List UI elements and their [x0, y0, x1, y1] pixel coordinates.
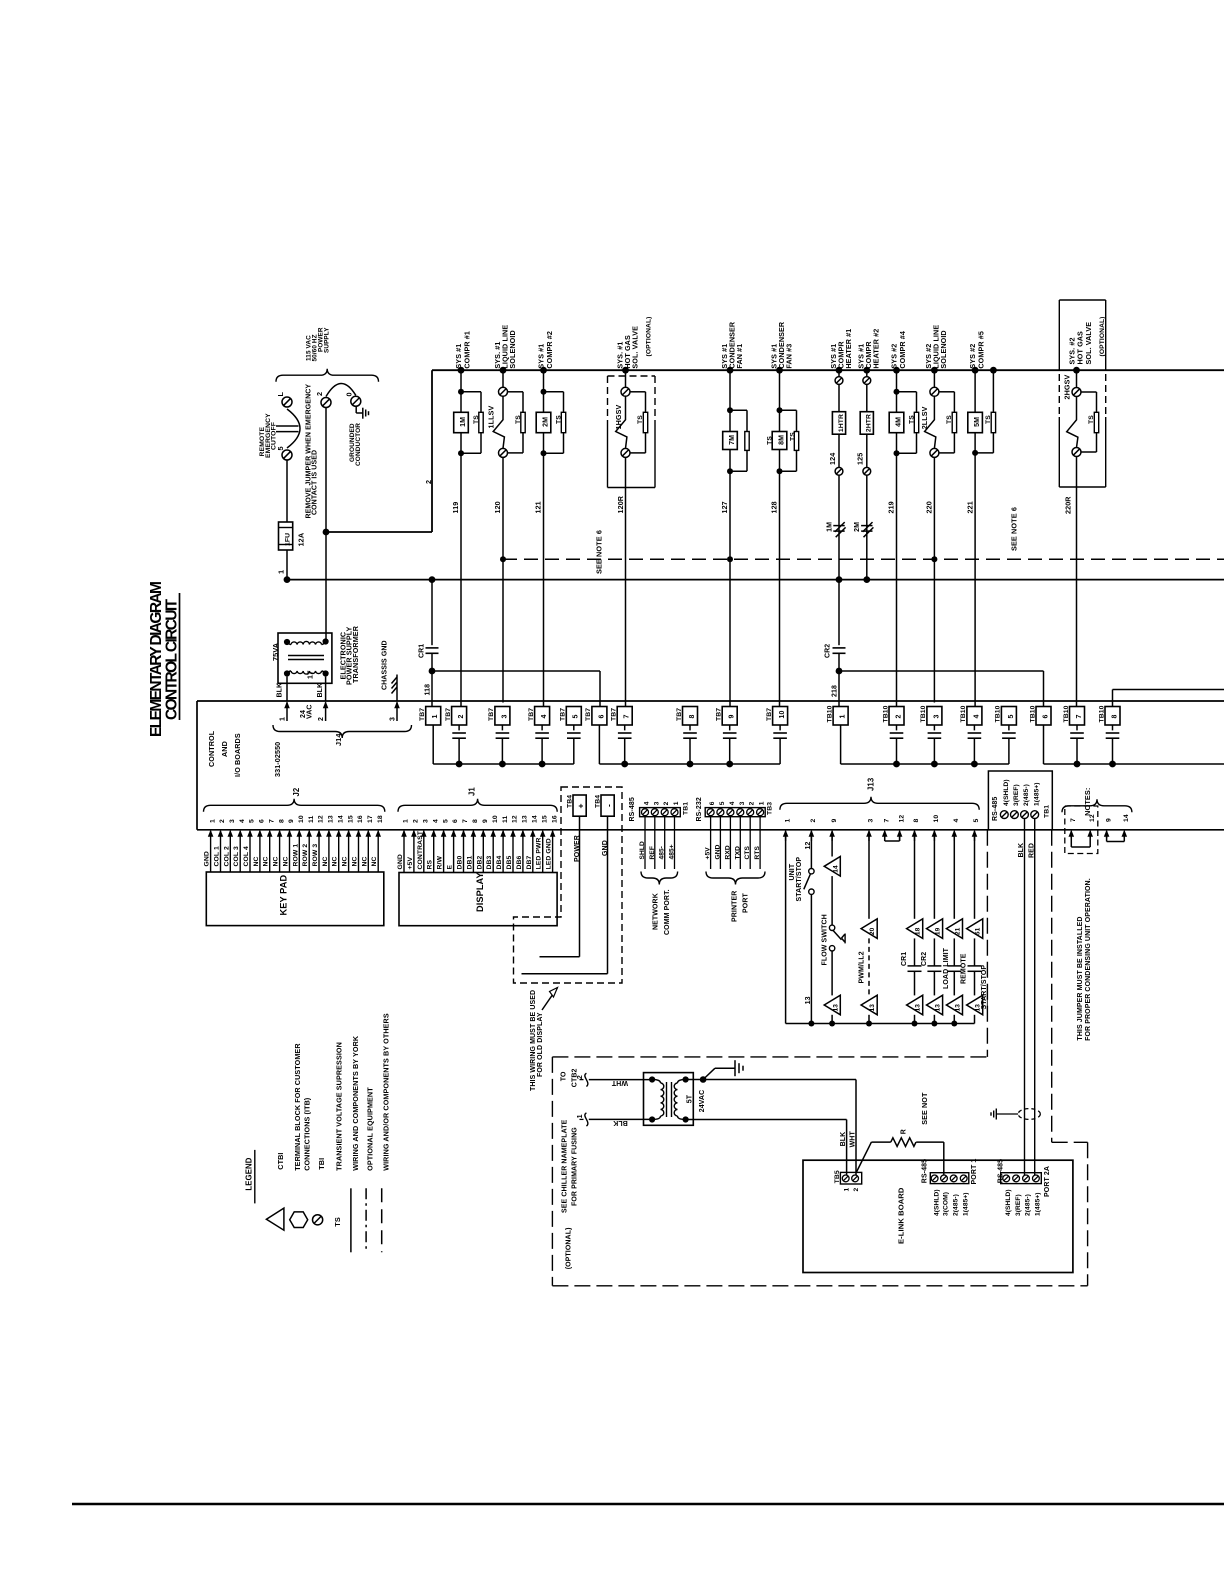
svg-text:4: 4	[953, 819, 960, 823]
svg-text:RXD: RXD	[724, 845, 731, 859]
svg-text:8: 8	[1111, 715, 1118, 719]
wire to TB10-8	[1112, 690, 1114, 707]
svg-text:125: 125	[856, 453, 865, 465]
svg-text:1LLSV: 1LLSV	[487, 406, 496, 429]
svg-text:ELEMENTARY DIAGRAM: ELEMENTARY DIAGRAM	[148, 582, 165, 737]
svg-text:AND: AND	[220, 741, 229, 757]
svg-text:TB7: TB7	[560, 708, 567, 721]
svg-text:TB7: TB7	[766, 708, 773, 721]
svg-text:21: 21	[955, 927, 962, 935]
terminal TB7-6	[592, 707, 607, 726]
J13 jumper pins 7-12	[884, 836, 886, 841]
svg-text:9: 9	[831, 819, 838, 823]
svg-text:2(485-): 2(485-)	[1025, 1194, 1032, 1216]
svg-text:2M: 2M	[542, 417, 549, 427]
svg-text:TB7: TB7	[716, 708, 723, 721]
svg-text:1: 1	[784, 819, 791, 823]
svg-text:NC: NC	[322, 856, 329, 866]
KEY PAD box	[206, 872, 383, 926]
TS suppressor at 2M	[561, 412, 565, 432]
svg-text:(OPTIONAL): (OPTIONAL)	[1099, 316, 1106, 356]
svg-text:2(485-): 2(485-)	[1023, 784, 1030, 806]
twisted pair shield symbol	[1018, 1109, 1040, 1120]
svg-text:3: 3	[868, 819, 875, 823]
TS suppressor at 4M	[914, 412, 918, 432]
svg-text:GND: GND	[397, 854, 404, 869]
BLK RED comm wires	[1024, 819, 1026, 1176]
terminal TB10-4	[967, 707, 982, 726]
J14 brace	[273, 725, 412, 738]
svg-text:4(SHLD): 4(SHLD)	[933, 1189, 940, 1216]
svg-text:1: 1	[840, 715, 847, 719]
svg-text:19: 19	[935, 927, 942, 935]
svg-text:RS-485: RS-485	[629, 797, 636, 821]
svg-text:PORT 2A: PORT 2A	[1044, 1166, 1051, 1197]
svg-text:ROW 3: ROW 3	[312, 844, 319, 867]
svg-text:PWM/LL2: PWM/LL2	[858, 951, 865, 983]
terminal TB7-3	[495, 707, 510, 726]
svg-text:9: 9	[482, 819, 489, 823]
svg-text:1: 1	[844, 1188, 851, 1192]
svg-text:THIS JUMPER MUST BE INSTALLED: THIS JUMPER MUST BE INSTALLED	[1077, 916, 1084, 1040]
svg-text:12: 12	[512, 815, 519, 823]
svg-text:5T: 5T	[686, 1094, 693, 1103]
REC contact	[276, 425, 299, 427]
aux contact 1M	[838, 475, 840, 579]
brace 115 VAC power supply	[276, 369, 379, 382]
top bus (node 2)	[432, 369, 1224, 371]
svg-text:TB10: TB10	[826, 705, 833, 722]
svg-text:COL 3: COL 3	[233, 846, 240, 867]
solenoid zigzag 1LLSV	[493, 396, 504, 448]
svg-text:NC: NC	[361, 856, 368, 866]
rail 1	[287, 579, 1224, 581]
svg-text:221: 221	[965, 501, 974, 513]
TB4 - terminal	[601, 795, 614, 816]
svg-text:TS: TS	[515, 415, 522, 424]
svg-text:2(485-): 2(485-)	[952, 1194, 959, 1216]
wire 119 to terminal	[460, 453, 462, 706]
svg-text:LED PWR: LED PWR	[536, 837, 543, 869]
svg-text:2: 2	[413, 819, 420, 823]
svg-text:FAN #1: FAN #1	[735, 344, 744, 369]
svg-text:120R: 120R	[616, 495, 625, 513]
svg-text:LOAD LIMIT: LOAD LIMIT	[943, 947, 950, 989]
svg-text:TB1: TB1	[683, 802, 690, 815]
svg-text:5: 5	[1008, 715, 1015, 719]
svg-text:CHASSIS GND: CHASSIS GND	[382, 640, 389, 690]
legend circle-slash symbol	[313, 1215, 323, 1225]
svg-text:TS: TS	[790, 432, 797, 441]
svg-text:FLOW SWITCH: FLOW SWITCH	[821, 914, 828, 965]
svg-text:3(REF): 3(REF)	[1013, 784, 1020, 806]
svg-text:TB5: TB5	[834, 1170, 841, 1183]
terminal TB7-1	[426, 707, 441, 726]
svg-text:DB5: DB5	[506, 855, 513, 869]
svg-text:RTS: RTS	[754, 846, 761, 860]
svg-text:WHT: WHT	[611, 1079, 628, 1086]
terminal L	[282, 397, 292, 407]
wire 220R	[1076, 457, 1078, 707]
svg-text:START/STOP: START/STOP	[796, 857, 803, 902]
svg-text:2: 2	[749, 801, 756, 805]
contactor coil 1M rung	[458, 367, 465, 374]
svg-text:2LLSV: 2LLSV	[920, 406, 929, 429]
svg-text:BLK: BLK	[1018, 843, 1025, 858]
svg-text:NC: NC	[253, 856, 260, 866]
chassis ground	[396, 690, 398, 701]
svg-text:COL 2: COL 2	[223, 846, 230, 867]
svg-text:24VAC: 24VAC	[699, 1090, 706, 1113]
svg-text:16: 16	[551, 815, 558, 823]
wire fuse to rail 1	[286, 550, 288, 580]
svg-text:PORT 1: PORT 1	[971, 1159, 978, 1185]
svg-text:14: 14	[832, 865, 839, 873]
svg-text:RS-232: RS-232	[696, 797, 703, 821]
svg-text:3(COM): 3(COM)	[943, 1192, 950, 1216]
earth ground at terminal 0	[355, 406, 357, 413]
svg-text:1: 1	[403, 819, 410, 823]
svg-text:13: 13	[805, 996, 812, 1004]
svg-text:TRANSFORMER: TRANSFORMER	[351, 625, 360, 683]
svg-text:1: 1	[432, 715, 439, 719]
svg-text:1: 1	[673, 801, 680, 805]
svg-text:9: 9	[288, 819, 295, 823]
svg-text:1M: 1M	[826, 522, 833, 532]
connector J13 brace	[780, 797, 979, 810]
optional boundary dashed lines	[986, 830, 988, 1057]
NOTES jumpers	[1062, 799, 1132, 812]
svg-text:BLK: BLK	[277, 683, 284, 698]
svg-text:14: 14	[532, 815, 539, 823]
svg-text:2: 2	[458, 715, 465, 719]
svg-text:RS-485: RS-485	[997, 1159, 1004, 1183]
svg-text:HEATER #1: HEATER #1	[844, 329, 853, 369]
old display note arrow	[542, 988, 558, 1011]
svg-text:RS-485: RS-485	[922, 1159, 929, 1183]
ground bus segment A	[433, 763, 574, 765]
svg-text:WIRING AND/OR COMPONENTS BY OT: WIRING AND/OR COMPONENTS BY OTHERS	[381, 1013, 390, 1171]
svg-text:15: 15	[347, 815, 354, 823]
svg-text:COMM PORT.: COMM PORT.	[664, 889, 671, 935]
unit start/stop switch on pin2 wire 12	[810, 836, 812, 869]
fuse 1FU 12A	[279, 522, 293, 550]
svg-text:TS: TS	[908, 415, 915, 424]
J14 pin arrows	[286, 702, 288, 721]
ground bus segment B	[599, 763, 780, 765]
wire 221	[974, 453, 976, 707]
svg-text:WHT: WHT	[850, 1131, 857, 1148]
terminal TB10-2	[889, 707, 904, 726]
svg-text:1: 1	[280, 717, 287, 721]
2HGSV optional dashed box	[1059, 299, 1105, 301]
svg-text:124: 124	[828, 453, 837, 465]
svg-text:51: 51	[975, 927, 982, 935]
svg-text:TB7: TB7	[676, 708, 683, 721]
fan contactor 7M rung	[727, 367, 734, 374]
svg-text:PORT: PORT	[743, 893, 750, 913]
capacitor CR1	[908, 965, 922, 967]
wire terminal 2 down	[325, 408, 327, 642]
svg-text:3: 3	[933, 715, 940, 719]
svg-text:5M: 5M	[974, 417, 981, 427]
svg-text:2: 2	[853, 1188, 860, 1192]
RS-485 TB1 terminal block	[988, 771, 1052, 830]
connector J1 brace	[398, 799, 557, 812]
wire 219 to terminal	[896, 453, 898, 706]
svg-text:SOLENOID: SOLENOID	[939, 330, 948, 368]
svg-text:TS: TS	[1088, 415, 1095, 424]
svg-text:CONTACT IS USED: CONTACT IS USED	[312, 450, 319, 515]
capacitor None	[968, 965, 982, 967]
jumper 7-12 dashed box	[1070, 834, 1072, 847]
svg-text:TS: TS	[946, 415, 953, 424]
terminal TB10-3	[927, 707, 942, 726]
svg-text:18: 18	[915, 927, 922, 935]
svg-text:1HGSV: 1HGSV	[614, 405, 623, 430]
svg-text:13: 13	[328, 815, 335, 823]
svg-text:TXD: TXD	[734, 846, 741, 860]
svg-text:FAN #3: FAN #3	[784, 344, 793, 369]
rail 2 corner	[326, 531, 432, 533]
svg-text:RS-485: RS-485	[992, 797, 999, 821]
wire 5 to fuse	[286, 460, 288, 522]
svg-text:15: 15	[541, 815, 548, 823]
solenoid 2LLSV rung	[931, 367, 938, 374]
svg-text:1HTR: 1HTR	[838, 414, 845, 432]
svg-text:12: 12	[1089, 814, 1096, 822]
svg-text:OPTIONAL EQUIPMENT: OPTIONAL EQUIPMENT	[366, 1087, 375, 1171]
1HGSV optional dashed box	[608, 375, 656, 377]
svg-text:75VA: 75VA	[271, 642, 280, 661]
svg-text:TRANSIENT VOLTAGE SUPRESSION: TRANSIENT VOLTAGE SUPRESSION	[335, 1042, 344, 1171]
svg-text:4: 4	[432, 819, 439, 823]
svg-text:331-02550: 331-02550	[273, 742, 282, 777]
svg-text:COL 4: COL 4	[243, 846, 250, 867]
svg-text:7: 7	[624, 715, 631, 719]
svg-text:12: 12	[318, 815, 325, 823]
terminal TB7-2	[452, 707, 467, 726]
2HGSV solenoid	[1073, 367, 1080, 374]
svg-text:E-LINK BOARD: E-LINK BOARD	[897, 1187, 906, 1244]
transformer 1T	[278, 633, 332, 683]
E-LINK port 2A	[1001, 1173, 1042, 1184]
legend hexagon symbol	[290, 1212, 308, 1228]
svg-text:CONDUCTOR: CONDUCTOR	[355, 423, 362, 466]
svg-text:TBI: TBI	[317, 1158, 326, 1170]
svg-text:NC: NC	[371, 856, 378, 866]
svg-text:2: 2	[318, 717, 325, 721]
svg-text:TB10: TB10	[1098, 705, 1105, 722]
heater 2HTR rung	[863, 367, 870, 374]
svg-text:SUPPLY: SUPPLY	[324, 327, 331, 353]
svg-text:RED: RED	[1028, 843, 1035, 858]
svg-text:CONTROL CIRCUIT: CONTROL CIRCUIT	[164, 598, 181, 720]
heater 1HTR rung	[836, 367, 843, 374]
svg-text:SEE NOTE 6: SEE NOTE 6	[1010, 507, 1019, 551]
svg-text:9: 9	[729, 715, 736, 719]
svg-text:219: 219	[887, 501, 896, 513]
svg-text:TS: TS	[637, 415, 644, 424]
svg-text:HEATER #2: HEATER #2	[872, 329, 881, 369]
optional equipment dashed line	[503, 558, 1224, 560]
svg-text:LEGEND: LEGEND	[245, 1157, 254, 1190]
svg-text:13: 13	[935, 1004, 942, 1012]
svg-text:20: 20	[869, 927, 876, 935]
BLK wire to TB5-1	[686, 1119, 847, 1121]
svg-text:2HTR: 2HTR	[866, 414, 873, 432]
svg-text:GND: GND	[714, 844, 721, 859]
svg-text:1(485+): 1(485+)	[1033, 782, 1040, 806]
svg-text:DISPLAY: DISPLAY	[475, 872, 485, 912]
svg-text:4: 4	[541, 715, 548, 719]
svg-text:THIS WIRING MUST BE USED: THIS WIRING MUST BE USED	[530, 990, 537, 1091]
svg-text:4: 4	[729, 801, 736, 805]
svg-text:3: 3	[390, 717, 397, 721]
svg-text:CTBI: CTBI	[276, 1153, 285, 1170]
svg-text:7: 7	[462, 819, 469, 823]
svg-text:GND: GND	[602, 840, 609, 856]
svg-text:(OPTIONAL): (OPTIONAL)	[645, 316, 652, 356]
wire 120R	[625, 457, 627, 706]
svg-text:SHLD: SHLD	[639, 841, 646, 859]
svg-text:4(SHLD): 4(SHLD)	[1005, 1189, 1012, 1216]
connector J2 brace	[204, 799, 385, 812]
svg-text:CR1: CR1	[419, 644, 426, 658]
svg-text:TO: TO	[561, 1071, 568, 1081]
svg-text:TS: TS	[473, 415, 480, 424]
svg-text:WIRING AND COMPONENTS BY YORK: WIRING AND COMPONENTS BY YORK	[351, 1035, 360, 1171]
svg-text:4M: 4M	[895, 417, 902, 427]
contactor coil 4M rung	[893, 367, 900, 374]
svg-text:485+: 485+	[669, 844, 676, 859]
CR1 branch	[429, 576, 436, 583]
CR2 branch	[838, 580, 840, 646]
svg-text:GND: GND	[204, 851, 211, 866]
svg-text:13: 13	[832, 1004, 839, 1012]
svg-text:7: 7	[1070, 818, 1077, 822]
svg-text:7: 7	[1076, 715, 1083, 719]
svg-text:TB3: TB3	[767, 802, 774, 815]
svg-text:TB7: TB7	[488, 708, 495, 721]
svg-text:R: R	[901, 1129, 908, 1134]
node 118 branch to TB7-6	[432, 670, 600, 672]
solenoid 1LLSV rung	[500, 367, 507, 374]
svg-text:CR2: CR2	[921, 952, 928, 966]
svg-text:5: 5	[973, 819, 980, 823]
coil box 4M	[889, 412, 904, 432]
svg-text:PRINTER: PRINTER	[732, 891, 739, 922]
svg-text:SOLENOID: SOLENOID	[508, 330, 517, 368]
svg-text:14: 14	[337, 815, 344, 823]
svg-text:2: 2	[219, 819, 226, 823]
svg-text:16: 16	[357, 815, 364, 823]
E-LINK board box	[803, 1160, 1073, 1272]
svg-text:6: 6	[598, 715, 605, 719]
svg-text:4: 4	[239, 819, 246, 823]
svg-text:11: 11	[308, 815, 315, 823]
svg-text:TB10: TB10	[920, 705, 927, 722]
svg-text:1(485+): 1(485+)	[962, 1192, 969, 1216]
svg-text:2HGSV: 2HGSV	[1062, 375, 1071, 400]
svg-text:128: 128	[770, 501, 779, 513]
svg-text:TB4: TB4	[567, 795, 574, 808]
aux contact 2M	[866, 475, 868, 579]
svg-text:6: 6	[259, 819, 266, 823]
svg-text:18: 18	[377, 815, 384, 823]
svg-text:2: 2	[315, 392, 324, 396]
svg-text:17: 17	[367, 815, 374, 823]
svg-text:8: 8	[278, 819, 285, 823]
svg-text:VAC: VAC	[307, 704, 314, 719]
svg-text:(OPTIONAL): (OPTIONAL)	[565, 1227, 572, 1269]
svg-text:NETWORK: NETWORK	[653, 893, 660, 930]
svg-text:BLK: BLK	[840, 1132, 847, 1147]
svg-text:7: 7	[883, 819, 890, 823]
svg-text:6: 6	[452, 819, 459, 823]
svg-text:CR2: CR2	[825, 644, 832, 658]
svg-text:NC: NC	[263, 856, 270, 866]
svg-text:10: 10	[298, 815, 305, 823]
ground bus segment C	[841, 763, 1009, 765]
terminal 5	[282, 450, 292, 460]
svg-text:TS: TS	[555, 415, 562, 424]
svg-text:SEE CHILLER NAMEPLATE: SEE CHILLER NAMEPLATE	[561, 1119, 568, 1213]
svg-text:COMPR #4: COMPR #4	[898, 331, 907, 369]
5M coil rung with TS to bus	[972, 367, 979, 374]
REC jumper arc	[287, 409, 300, 448]
flow switch on pin9 wire	[831, 836, 833, 857]
terminal TB7-8	[683, 707, 698, 726]
svg-text:FOR OLD DISPLAY: FOR OLD DISPLAY	[537, 1012, 544, 1077]
svg-text:3: 3	[501, 715, 508, 719]
svg-text:13: 13	[522, 815, 529, 823]
svg-text:LED GND: LED GND	[546, 838, 553, 869]
svg-text:DB4: DB4	[496, 855, 503, 869]
svg-text:TB7: TB7	[611, 708, 618, 721]
1HGSV solenoid	[622, 367, 629, 374]
svg-text:0: 0	[345, 392, 354, 396]
capacitor None	[947, 965, 961, 967]
CR2 contact input pin10	[933, 836, 935, 919]
svg-text:NC: NC	[283, 856, 290, 866]
svg-text:TB10: TB10	[995, 705, 1002, 722]
svg-text:10: 10	[933, 815, 940, 823]
svg-text:8: 8	[689, 715, 696, 719]
J13 pin1 wire and common rail 13	[785, 836, 787, 1024]
svg-text:10: 10	[492, 815, 499, 823]
svg-text:RS: RS	[427, 859, 434, 869]
svg-text:2: 2	[424, 480, 433, 484]
TS branch 1LLSV	[508, 391, 524, 393]
svg-text:CONTRAST: CONTRAST	[417, 830, 424, 869]
svg-text:COL 1: COL 1	[214, 846, 221, 867]
WHT wire to TB5-2	[703, 1079, 856, 1081]
pwm/ll2 on pin3 wire	[868, 836, 870, 919]
svg-text:BLK: BLK	[317, 683, 324, 698]
transformer secondary wires to J14	[286, 677, 288, 702]
svg-text:4: 4	[644, 801, 651, 805]
terminal TB7-10	[773, 707, 788, 726]
svg-text:2M: 2M	[854, 522, 861, 532]
svg-text:KEY PAD: KEY PAD	[279, 875, 289, 916]
svg-text:NC: NC	[273, 856, 280, 866]
svg-text:J1: J1	[468, 787, 477, 796]
svg-text:FOR PROPER CONDENSING UNIT OPE: FOR PROPER CONDENSING UNIT OPERATION.	[1085, 878, 1092, 1041]
svg-text:DB0: DB0	[457, 855, 464, 869]
svg-text:REF: REF	[649, 846, 656, 860]
svg-text:7M: 7M	[729, 435, 736, 445]
